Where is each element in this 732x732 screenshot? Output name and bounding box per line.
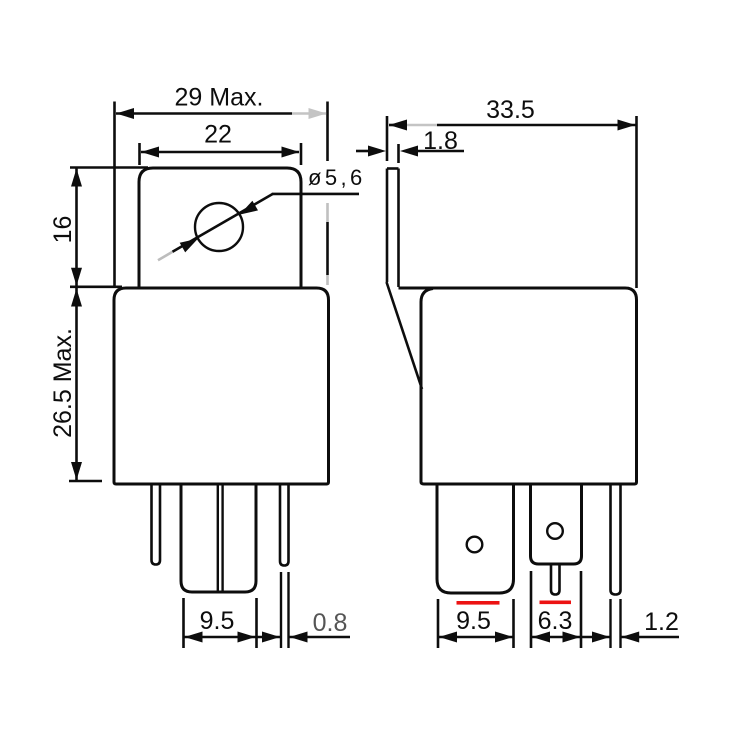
- svg-text:1.8: 1.8: [423, 127, 458, 155]
- svg-text:9.5: 9.5: [200, 607, 235, 635]
- svg-text:ø5,6: ø5,6: [308, 165, 366, 190]
- svg-text:26.5 Max.: 26.5 Max.: [49, 328, 77, 438]
- svg-text:16: 16: [49, 216, 77, 244]
- svg-text:0.8: 0.8: [313, 609, 348, 637]
- svg-text:33.5: 33.5: [486, 96, 535, 124]
- svg-text:22: 22: [204, 121, 232, 149]
- svg-text:29 Max.: 29 Max.: [175, 84, 264, 112]
- svg-text:6.3: 6.3: [538, 607, 573, 635]
- svg-text:1.2: 1.2: [644, 608, 679, 636]
- svg-text:9.5: 9.5: [456, 607, 491, 635]
